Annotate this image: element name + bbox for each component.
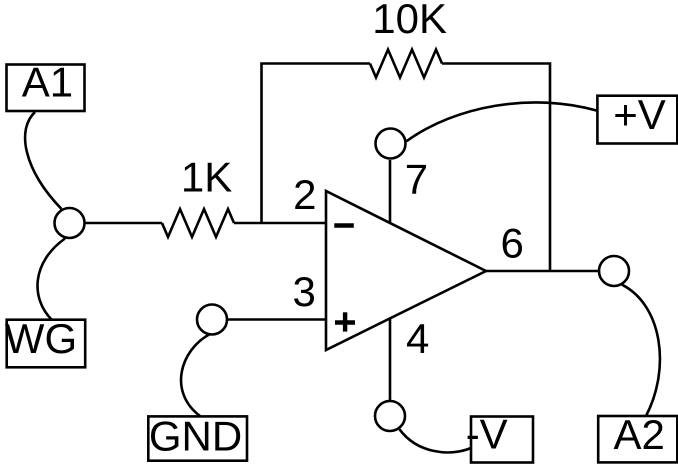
svg-text:6: 6: [501, 220, 524, 267]
svg-text:-V: -V: [466, 411, 508, 458]
svg-text:7: 7: [405, 156, 428, 203]
svg-text:3: 3: [293, 268, 316, 315]
svg-text:4: 4: [406, 315, 429, 362]
svg-text:WG: WG: [5, 315, 77, 362]
svg-text:A2: A2: [614, 411, 665, 458]
svg-text:2: 2: [293, 171, 316, 218]
svg-text:1K: 1K: [181, 154, 232, 201]
svg-text:A1: A1: [22, 59, 73, 106]
svg-text:10K: 10K: [372, 0, 447, 42]
svg-text:+V: +V: [613, 91, 666, 138]
svg-text:GND: GND: [149, 413, 242, 460]
